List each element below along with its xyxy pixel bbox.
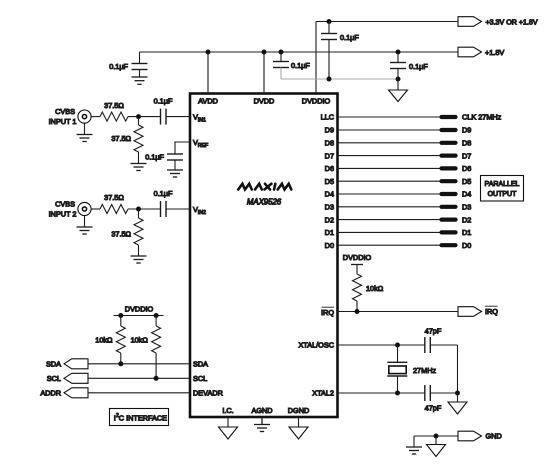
svg-text:DVDDIO: DVDDIO xyxy=(125,305,154,314)
svg-text:47pF: 47pF xyxy=(425,404,442,413)
wire AVDD pin to +1.8V rail xyxy=(207,52,209,94)
power tag +3.3V OR +1.8V xyxy=(458,17,538,27)
svg-text:D0: D0 xyxy=(462,241,471,250)
wire J1 shield to ground xyxy=(84,123,86,134)
svg-text:0.1μF: 0.1μF xyxy=(145,153,164,162)
ground earth symbol under AGND pin xyxy=(254,417,270,431)
net label D2 xyxy=(462,215,471,224)
pin label DEVADR xyxy=(193,389,223,398)
label CVBS INPUT 2 xyxy=(49,200,77,219)
net label D7 xyxy=(462,151,471,160)
value label 37.5ohm for R4 xyxy=(111,230,131,239)
label box I2C INTERFACE xyxy=(110,409,169,426)
svg-text:SCL: SCL xyxy=(47,374,61,383)
pin label SCL xyxy=(193,374,207,383)
value label 0.1uF for C4 xyxy=(409,62,428,71)
wire D7 data line xyxy=(338,155,449,157)
ground earth symbol under C1 xyxy=(132,77,148,84)
resistor R6 10kohm SDA pull-up xyxy=(116,316,125,364)
capacitor C5 0.1uF input 1 coupling xyxy=(161,109,191,125)
wire D1 data line xyxy=(338,231,449,233)
svg-text:0.1μF: 0.1μF xyxy=(154,189,173,198)
svg-text:DVDDIO: DVDDIO xyxy=(302,97,331,106)
wire J2 shield to ground xyxy=(84,216,86,227)
svg-text:DVDDIO: DVDDIO xyxy=(343,253,372,262)
svg-text:D5: D5 xyxy=(325,177,334,186)
wire D2 data line xyxy=(338,219,449,221)
net label D6 xyxy=(462,164,471,173)
wire SCL line xyxy=(88,377,190,379)
wire GND left drop to earth xyxy=(413,436,415,447)
resistor R2 37.5ohm shunt input 1 xyxy=(134,117,143,164)
wire SDA line xyxy=(88,363,190,365)
value label 0.1uF for C5 xyxy=(154,97,173,106)
svg-text:37.5Ω: 37.5Ω xyxy=(104,101,124,110)
wire J2 to R3 xyxy=(91,208,100,210)
svg-text:GND: GND xyxy=(486,432,502,441)
resistor R3 37.5ohm series input 2 xyxy=(100,205,128,214)
node junction DVDDIO bar left xyxy=(118,313,123,318)
svg-text:REF: REF xyxy=(198,143,208,149)
svg-text:D1: D1 xyxy=(325,228,334,237)
label CVBS INPUT 1 xyxy=(49,107,77,126)
capacitor C6 0.1uF VREF bypass xyxy=(167,154,183,170)
wire LLC to CLK 27MHz xyxy=(338,116,449,118)
svg-text:D6: D6 xyxy=(462,164,471,173)
pin label IRQ (active low) xyxy=(321,307,334,317)
svg-text:SDA: SDA xyxy=(46,360,61,369)
svg-text:LLC: LLC xyxy=(321,113,334,122)
pin label D3 xyxy=(325,203,334,212)
svg-text:D0: D0 xyxy=(325,241,334,250)
pin label AGND xyxy=(251,406,272,415)
signal tag SDA input xyxy=(46,359,88,369)
value label 37.5ohm for R3 xyxy=(104,193,124,202)
pin label DGND xyxy=(288,406,310,415)
svg-text:37.5Ω: 37.5Ω xyxy=(111,134,131,143)
node junction C2 on grey rail xyxy=(327,77,332,82)
svg-text:D8: D8 xyxy=(325,139,334,148)
wire analog ground return rail (grey) xyxy=(281,78,398,80)
net label D8 xyxy=(462,139,471,148)
connector J1 CVBS INPUT 1 xyxy=(78,110,91,123)
svg-text:CVBS: CVBS xyxy=(55,107,75,116)
svg-text:IRQ: IRQ xyxy=(321,308,334,317)
pin label D4 xyxy=(325,190,334,199)
svg-text:D5: D5 xyxy=(462,177,471,186)
ground earth symbol under C6 xyxy=(167,170,183,177)
wire +1.8V rail xyxy=(140,51,459,53)
svg-text:DVDD: DVDD xyxy=(254,97,275,106)
svg-text:CLK 27MHz: CLK 27MHz xyxy=(462,113,502,122)
svg-text:SCL: SCL xyxy=(193,374,207,383)
svg-text:37.5Ω: 37.5Ω xyxy=(104,193,124,202)
svg-text:47pF: 47pF xyxy=(425,327,442,336)
value label 0.1uF for C2 xyxy=(340,33,359,42)
wire IRQ line xyxy=(338,311,459,313)
wire right leg joining C8 and C9 xyxy=(457,345,459,393)
pin label VIN2 xyxy=(193,205,206,216)
ground triangle at GND cluster xyxy=(427,436,446,457)
svg-text:AVDD: AVDD xyxy=(198,97,218,106)
pin label SDA xyxy=(193,360,208,369)
svg-text:D4: D4 xyxy=(325,190,334,199)
connector J2 CVBS INPUT 2 xyxy=(78,202,91,215)
svg-text:10kΩ: 10kΩ xyxy=(131,336,149,345)
bus stub D7 xyxy=(442,154,456,158)
svg-text:0.1μF: 0.1μF xyxy=(109,62,128,71)
bus stub D1 xyxy=(442,230,456,234)
net label D9 xyxy=(462,126,471,135)
ground triangle under crystal network xyxy=(448,393,467,414)
node junction DVDDIO bar right xyxy=(154,313,159,318)
pin label D6 xyxy=(325,164,334,173)
svg-text:27MHz: 27MHz xyxy=(413,366,436,375)
wire D3 data line xyxy=(338,206,449,208)
node junction R6/SDA xyxy=(118,361,123,366)
svg-text:0.1μF: 0.1μF xyxy=(409,62,428,71)
wire GND tag line xyxy=(414,435,458,437)
wire DVDDIO pin to +3.3V rail xyxy=(315,22,317,94)
svg-text:IN2: IN2 xyxy=(198,210,206,216)
svg-text:I.C.: I.C. xyxy=(222,406,233,415)
svg-text:D8: D8 xyxy=(462,139,471,148)
label box PARALLEL OUTPUT xyxy=(481,176,524,202)
wire XTAL/OSC line xyxy=(338,344,458,346)
node junction GND xyxy=(434,434,439,439)
svg-text:PARALLEL: PARALLEL xyxy=(485,181,520,188)
ground earth symbol under J2 xyxy=(77,227,93,234)
ground triangle under DGND pin xyxy=(289,417,308,439)
wire R3 to node B xyxy=(128,208,161,210)
value label 37.5ohm for R2 xyxy=(111,134,131,143)
svg-text:D2: D2 xyxy=(462,215,471,224)
svg-text:DEVADR: DEVADR xyxy=(193,389,223,398)
wire D0 data line xyxy=(338,244,449,246)
bus stub D9 xyxy=(442,128,456,132)
pin label VREF xyxy=(193,138,208,149)
ground earth symbol under R4 xyxy=(131,256,147,263)
svg-text:+3.3V OR +1.8V: +3.3V OR +1.8V xyxy=(486,18,538,26)
pin label LLC xyxy=(321,113,334,122)
svg-text:D9: D9 xyxy=(462,126,471,135)
wire D9 data line xyxy=(338,129,449,131)
svg-text:C INTERFACE: C INTERFACE xyxy=(119,413,167,422)
pin label D7 xyxy=(325,151,334,160)
wire VREF pin to C6 xyxy=(175,142,190,154)
value label 47pF for C9 xyxy=(425,404,442,413)
crystal Y1 27MHz xyxy=(387,345,407,393)
pin label D8 xyxy=(325,139,334,148)
wire D8 data line xyxy=(338,142,449,144)
value label 0.1uF for C6 xyxy=(145,153,164,162)
bus stub D5 xyxy=(442,179,456,183)
label MAX9526 part number xyxy=(247,198,282,207)
svg-text:0.1μF: 0.1μF xyxy=(291,61,310,70)
pin label I.C. xyxy=(222,406,233,415)
net label D0 xyxy=(462,241,471,250)
power net DVDDIO above I2C pull-ups xyxy=(114,305,164,316)
power net DVDDIO above R5 xyxy=(343,253,372,265)
node junction C4 on +1.8V rail xyxy=(396,50,401,55)
svg-text:IN1: IN1 xyxy=(198,117,206,123)
capacitor C9 47pF XTAL2 xyxy=(425,385,431,401)
node junction on +3.3V rail at C2 xyxy=(327,19,332,24)
svg-text:D4: D4 xyxy=(462,190,471,199)
wire R1 to node A xyxy=(128,116,161,118)
svg-text:0.1μF: 0.1μF xyxy=(154,97,173,106)
node junction R5/IRQ xyxy=(355,309,360,314)
wire XTAL2 line xyxy=(338,392,458,394)
node junction C4 on grey rail xyxy=(396,77,401,82)
svg-text:D6: D6 xyxy=(325,164,334,173)
node A junction input 1 xyxy=(136,114,141,119)
logo MAXIM xyxy=(238,184,291,190)
svg-text:AGND: AGND xyxy=(251,406,272,415)
node junction crystal bottom xyxy=(395,391,400,396)
svg-text:MAX9526: MAX9526 xyxy=(247,198,282,207)
ground earth symbol under R2 xyxy=(131,164,147,171)
bus stub D6 xyxy=(442,166,456,170)
signal tag GND xyxy=(458,431,502,441)
resistor R4 37.5ohm shunt input 2 xyxy=(134,209,143,256)
svg-text:INPUT 1: INPUT 1 xyxy=(49,117,77,126)
node junction DVDD on +1.8V rail xyxy=(262,50,267,55)
node junction crystal top xyxy=(395,343,400,348)
svg-text:37.5Ω: 37.5Ω xyxy=(111,230,131,239)
value label 37.5ohm for R1 xyxy=(104,101,124,110)
value label 0.1uF for C3 xyxy=(291,61,310,70)
pin label AVDD xyxy=(198,97,218,106)
svg-text:D7: D7 xyxy=(462,151,471,160)
svg-text:ADDR: ADDR xyxy=(40,389,61,398)
bus stub D0 xyxy=(442,243,456,247)
capacitor C4 0.1uF bypass at +1.8V tag xyxy=(390,52,406,79)
resistor R1 37.5ohm series input 1 xyxy=(100,112,128,121)
wire D6 data line xyxy=(338,167,449,169)
svg-text:D9: D9 xyxy=(325,126,334,135)
capacitor C7 0.1uF input 2 coupling xyxy=(161,201,191,217)
capacitor C1 0.1uF AVDD bypass xyxy=(132,52,148,77)
node junction AVDD on +1.8V rail xyxy=(206,50,211,55)
node junction R7/SCL xyxy=(154,376,159,381)
svg-text:D3: D3 xyxy=(462,203,471,212)
bus stub D2 xyxy=(442,218,456,222)
node junction C3 on +1.8V rail xyxy=(279,50,284,55)
net label CLK 27MHz xyxy=(462,113,502,122)
pin label D9 xyxy=(325,126,334,135)
svg-text:D3: D3 xyxy=(325,203,334,212)
ground earth symbol under J1 xyxy=(77,135,93,142)
pin label D5 xyxy=(325,177,334,186)
bus stub CLK 27MHz xyxy=(442,115,456,119)
pin label D2 xyxy=(325,215,334,224)
value label 27MHz for Y1 xyxy=(413,366,436,375)
power tag +1.8V xyxy=(458,47,504,57)
svg-text:D1: D1 xyxy=(462,228,471,237)
capacitor C3 0.1uF DVDD bypass xyxy=(273,52,289,79)
net label D3 xyxy=(462,203,471,212)
wire D5 data line xyxy=(338,180,449,182)
net label D4 xyxy=(462,190,471,199)
value label 10kohm for R7 xyxy=(131,336,149,345)
bus stub D4 xyxy=(442,192,456,196)
value label 0.1uF for C7 xyxy=(154,189,173,198)
svg-text:SDA: SDA xyxy=(193,360,208,369)
svg-text:D2: D2 xyxy=(325,215,334,224)
bus stub D3 xyxy=(442,205,456,209)
wire DVDD pin to +1.8V rail xyxy=(263,52,265,94)
svg-text:10kΩ: 10kΩ xyxy=(95,336,113,345)
node junction C9 right xyxy=(455,391,460,396)
value label 47pF for C8 xyxy=(425,327,442,336)
pin label XTAL/OSC xyxy=(298,341,334,350)
svg-text:10kΩ: 10kΩ xyxy=(366,284,384,293)
net label D5 xyxy=(462,177,471,186)
value label 0.1uF for C1 xyxy=(109,62,128,71)
capacitor C8 47pF XTAL/OSC xyxy=(425,337,431,353)
IC U1 MAX9526 body xyxy=(190,94,338,418)
value label 10kohm for R6 xyxy=(95,336,113,345)
signal tag ADDR input xyxy=(40,388,88,398)
svg-text:IRQ: IRQ xyxy=(485,307,498,316)
ground earth symbol at GND cluster xyxy=(406,447,422,454)
svg-text:CVBS: CVBS xyxy=(55,200,75,209)
svg-text:XTAL/OSC: XTAL/OSC xyxy=(298,341,334,350)
svg-text:OUTPUT: OUTPUT xyxy=(488,191,518,198)
wire J1 to R1 xyxy=(91,116,100,118)
net label D1 xyxy=(462,228,471,237)
signal tag IRQ output xyxy=(458,306,498,316)
pin label XTAL2 xyxy=(312,389,334,398)
svg-text:D7: D7 xyxy=(325,151,334,160)
pin label DVDD xyxy=(254,97,275,106)
svg-text:0.1μF: 0.1μF xyxy=(340,33,359,42)
wire ADDR line to DEVADR xyxy=(88,392,190,394)
value label 10kohm for R5 xyxy=(366,284,384,293)
bus stub D8 xyxy=(442,141,456,145)
wire D4 data line xyxy=(338,193,449,195)
capacitor C2 0.1uF DVDDIO bypass xyxy=(321,22,337,80)
pin label D0 xyxy=(325,241,334,250)
pin label VIN1 xyxy=(193,113,206,124)
ground triangle under I.C. pin xyxy=(219,417,238,439)
resistor R7 10kohm SCL pull-up xyxy=(152,316,161,379)
node B junction input 2 xyxy=(136,207,141,212)
resistor R5 10kohm IRQ pull-up xyxy=(353,265,362,312)
pin label DVDDIO xyxy=(302,97,331,106)
svg-text:DGND: DGND xyxy=(288,406,310,415)
svg-text:INPUT 2: INPUT 2 xyxy=(49,210,77,219)
wire +3.3V OR +1.8V rail xyxy=(316,21,458,23)
signal tag SCL input xyxy=(47,373,88,383)
ground triangle under grey rail xyxy=(389,79,408,102)
pin label D1 xyxy=(325,228,334,237)
svg-text:+1.8V: +1.8V xyxy=(485,48,504,57)
svg-text:XTAL2: XTAL2 xyxy=(312,389,334,398)
